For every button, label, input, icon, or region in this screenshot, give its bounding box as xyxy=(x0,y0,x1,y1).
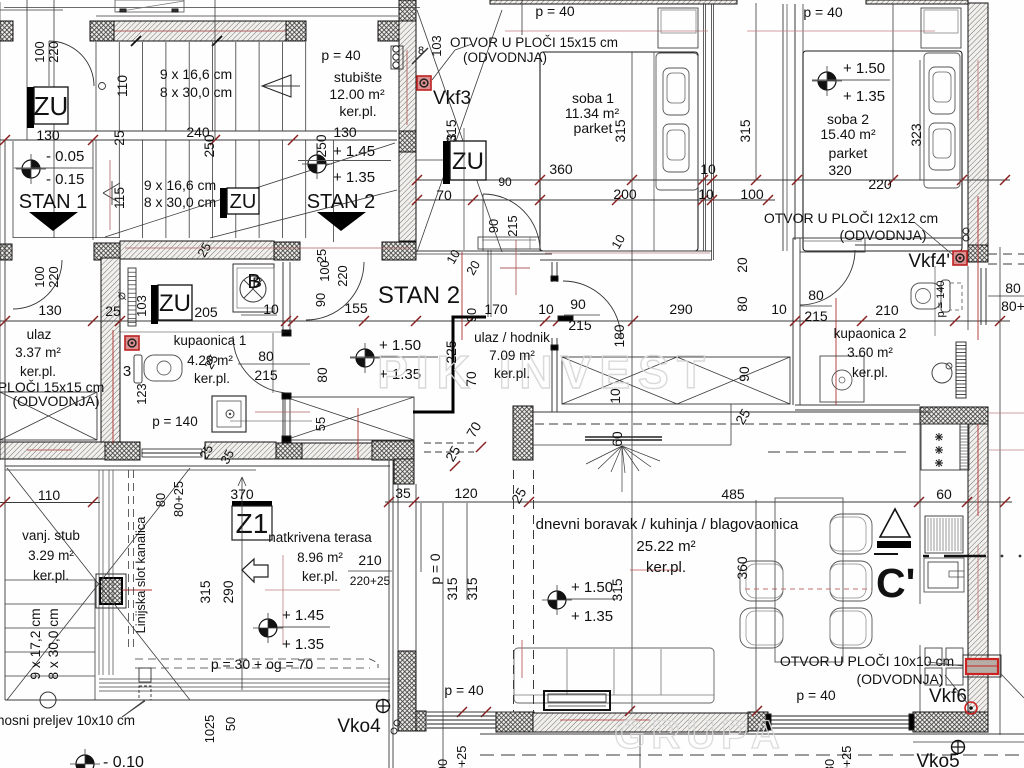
svg-text:25.22 m²: 25.22 m² xyxy=(636,538,695,555)
svg-text:80: 80 xyxy=(153,493,168,507)
svg-text:Vko5: Vko5 xyxy=(916,751,959,768)
ZU marker kupaonica1 xyxy=(134,285,218,324)
svg-text:90: 90 xyxy=(570,296,586,312)
window bottom (balcony) xyxy=(766,714,914,730)
right exterior wall upper xyxy=(968,3,988,245)
kupaonica1 door arc xyxy=(233,336,290,393)
terrace right boundary xyxy=(389,460,393,768)
right wall block above window xyxy=(968,245,988,262)
svg-text:100: 100 xyxy=(740,186,764,202)
svg-text:STAN 1: STAN 1 xyxy=(19,191,88,213)
kitchen dashed center line xyxy=(768,451,908,453)
door frame lines soba1 xyxy=(488,250,491,317)
svg-text:OTVOR U PLOČI 10x10 cm: OTVOR U PLOČI 10x10 cm xyxy=(780,653,954,669)
hodnik stud wall lower xyxy=(551,338,558,412)
lower-left wall band xyxy=(0,442,105,459)
svg-text:70: 70 xyxy=(436,187,452,203)
svg-text:0+25: 0+25 xyxy=(839,746,854,768)
stan1 arrow xyxy=(29,212,78,231)
overflow box xyxy=(122,668,151,717)
svg-text:stubište: stubište xyxy=(334,69,382,85)
svg-text:80+: 80+ xyxy=(1001,298,1024,314)
svg-text:p = 0: p = 0 xyxy=(428,553,443,584)
svg-text:p = 40: p = 40 xyxy=(796,687,836,703)
terrace diagonal b xyxy=(7,468,190,700)
svg-text:215: 215 xyxy=(254,367,278,383)
watermark xyxy=(377,346,786,757)
terrace wall column xyxy=(394,459,414,484)
svg-text:+ 1.35: + 1.35 xyxy=(571,608,613,625)
dim line 80 right xyxy=(988,295,1024,297)
stan2 entry door arc xyxy=(306,262,364,320)
toilet kupaonica1 xyxy=(134,355,182,383)
dining table xyxy=(775,498,843,662)
stairwell right wall foot block xyxy=(400,241,416,260)
svg-text:ker.pl.: ker.pl. xyxy=(494,366,530,381)
svg-text:115: 115 xyxy=(112,187,127,209)
elevation marker stubiste xyxy=(298,143,391,186)
small circles balcony column xyxy=(391,720,400,734)
elevation marker bottom-left xyxy=(70,749,144,768)
svg-text:220+25: 220+25 xyxy=(350,574,391,588)
terrace diagonal a xyxy=(7,468,190,700)
stair column circle xyxy=(99,83,106,90)
svg-text:70: 70 xyxy=(464,371,479,387)
svg-text:OTVOR U PLOČI 12x12 cm: OTVOR U PLOČI 12x12 cm xyxy=(764,210,938,226)
svg-text:25: 25 xyxy=(112,130,127,146)
void X box above terrace wall xyxy=(285,397,414,440)
svg-text:103: 103 xyxy=(134,295,149,317)
shaft X cross xyxy=(417,10,502,252)
coffee table xyxy=(544,691,610,710)
hodnik wall corner xyxy=(520,251,552,254)
svg-text:210: 210 xyxy=(875,302,899,318)
svg-text:kupaonica 1: kupaonica 1 xyxy=(174,333,247,348)
tick marks top band xyxy=(131,36,222,46)
bottom wall hatched xyxy=(533,713,748,732)
drain symbol Vkf4 xyxy=(953,251,967,265)
mid wall block left of kupaonica1 xyxy=(94,243,120,260)
stan2 arrow xyxy=(317,212,366,231)
svg-text:250: 250 xyxy=(202,134,217,157)
svg-text:+ 1.50: + 1.50 xyxy=(571,579,613,596)
soba1 east wall xyxy=(704,4,714,260)
svg-text:soba 1: soba 1 xyxy=(572,90,614,106)
svg-text:+ 1.45: + 1.45 xyxy=(282,607,324,624)
ulaz door jamb lines xyxy=(13,141,120,240)
elevation marker hodnik xyxy=(350,337,438,383)
svg-text:Vkf3: Vkf3 xyxy=(433,88,471,109)
living room north dashed xyxy=(535,423,930,425)
svg-text:ker.pl.: ker.pl. xyxy=(339,103,376,119)
window right dashes xyxy=(988,254,1024,264)
svg-text:210: 210 xyxy=(358,552,382,568)
stair direction arrow xyxy=(262,75,300,97)
hob burners xyxy=(935,433,943,467)
leader preljev xyxy=(122,701,145,717)
shaft circles frame xyxy=(391,46,403,69)
svg-text:dnevni boravak / kuhinja / bla: dnevni boravak / kuhinja / blagovaonica xyxy=(536,516,799,533)
svg-text:STAN 2: STAN 2 xyxy=(378,282,460,309)
window right (kupaonica2) xyxy=(935,266,986,336)
wall block stair top right xyxy=(378,21,416,41)
svg-text:p = 40: p = 40 xyxy=(803,4,843,20)
svg-text:80: 80 xyxy=(808,287,824,303)
kupaonica2 south wall block xyxy=(920,407,988,424)
svg-text:soba 2: soba 2 xyxy=(827,111,869,127)
kitchen sink xyxy=(923,555,1021,592)
svg-text:60: 60 xyxy=(936,486,952,502)
soba2 room outline xyxy=(803,51,962,251)
stair lower flight treads xyxy=(96,140,397,238)
svg-text:7.09 m²: 7.09 m² xyxy=(489,348,535,363)
svg-text:ZU: ZU xyxy=(452,148,484,175)
kupaonica2 north wall xyxy=(793,238,962,245)
svg-text:290: 290 xyxy=(221,580,236,603)
dim line y140 xyxy=(0,135,300,145)
svg-text:- 0.15: - 0.15 xyxy=(46,171,84,188)
svg-text:10: 10 xyxy=(700,161,716,177)
dim line y502 left (110) xyxy=(0,497,100,507)
right exterior wall lower xyxy=(968,424,988,712)
svg-text:p = 30 + og = 70: p = 30 + og = 70 xyxy=(211,656,314,672)
kupaonica1 east wall xyxy=(282,262,291,442)
balcony column borders xyxy=(398,484,416,651)
svg-text:B: B xyxy=(252,274,261,290)
svg-text:130: 130 xyxy=(333,124,357,140)
svg-text:8 x 30,0 cm: 8 x 30,0 cm xyxy=(144,194,216,210)
stair arrow left flight xyxy=(103,160,120,230)
shower kupaonica1 xyxy=(212,396,246,432)
svg-text:35: 35 xyxy=(395,485,411,501)
svg-text:ker.pl.: ker.pl. xyxy=(302,569,338,584)
svg-text:155: 155 xyxy=(344,300,368,316)
symbol B xyxy=(233,264,277,315)
svg-text:ZU: ZU xyxy=(159,290,191,317)
svg-text:10: 10 xyxy=(771,301,787,317)
svg-text:170: 170 xyxy=(484,301,508,317)
svg-text:225: 225 xyxy=(444,340,459,363)
svg-text:360: 360 xyxy=(549,161,573,177)
red line stair wall xyxy=(406,50,408,125)
svg-text:220: 220 xyxy=(335,265,350,286)
soffit line dnevni xyxy=(533,404,731,445)
shaft strip lines xyxy=(783,4,787,251)
svg-text:200: 200 xyxy=(613,186,637,202)
svg-text:100: 100 xyxy=(32,41,47,62)
terrace channel lines xyxy=(99,470,390,691)
svg-text:320: 320 xyxy=(828,162,852,178)
svg-text:+ 1.35: + 1.35 xyxy=(333,169,375,186)
svg-text:- 0.05: - 0.05 xyxy=(46,148,84,165)
svg-text:1025: 1025 xyxy=(202,715,217,743)
red plumbing line hodnik xyxy=(461,252,463,340)
red level line top xyxy=(505,30,935,32)
svg-text:90: 90 xyxy=(313,293,328,307)
leader Vkf6 xyxy=(928,662,968,704)
washbasin kupaonica1 xyxy=(0,0,1,1)
exterior wall hatched band top-left xyxy=(114,21,286,41)
bottom wall block right xyxy=(913,712,988,732)
svg-text:Vkf6: Vkf6 xyxy=(929,686,967,707)
svg-text:220: 220 xyxy=(868,176,892,192)
red line pillar xyxy=(122,555,340,645)
svg-text:80: 80 xyxy=(1005,280,1021,296)
svg-text:55: 55 xyxy=(313,417,328,431)
svg-text:+ 1.35: + 1.35 xyxy=(282,636,324,653)
wardrobe soba2 xyxy=(921,8,961,48)
svg-text:+ 1.45: + 1.45 xyxy=(333,143,375,160)
stair upper flight treads xyxy=(45,42,397,242)
section marker C xyxy=(874,509,915,606)
dim line y200 xyxy=(412,195,775,205)
svg-text:315: 315 xyxy=(444,119,459,142)
svg-text:ker.pl.: ker.pl. xyxy=(852,365,888,380)
svg-text:80+25: 80+25 xyxy=(171,481,186,517)
terrace left boundary xyxy=(4,140,6,700)
svg-text:110: 110 xyxy=(115,75,130,97)
svg-text:natkrivena terasa: natkrivena terasa xyxy=(268,530,372,545)
svg-text:80: 80 xyxy=(735,296,750,312)
svg-text:(ODVODNJA): (ODVODNJA) xyxy=(12,393,99,409)
kitchen cabinet squares xyxy=(925,648,963,685)
svg-text:12.00 m²: 12.00 m² xyxy=(329,86,385,102)
terrace arrow xyxy=(242,559,268,582)
svg-text:PIK INVEST: PIK INVEST xyxy=(377,346,713,398)
svg-text:3.60 m²: 3.60 m² xyxy=(847,345,893,360)
svg-text:+ 1.50: + 1.50 xyxy=(843,60,885,77)
svg-text:9 x 16,6 cm: 9 x 16,6 cm xyxy=(144,177,216,193)
svg-text:215: 215 xyxy=(804,308,828,324)
vertical dim lines left xyxy=(27,0,215,238)
window left (kupaonica1) xyxy=(142,449,202,457)
dim line y712 xyxy=(426,706,762,717)
svg-text:OTVOR U PLOČI 15x15 cm: OTVOR U PLOČI 15x15 cm xyxy=(450,35,618,50)
svg-text:290: 290 xyxy=(669,301,693,317)
top edge wall sliver soba2 xyxy=(866,0,968,4)
svg-text:ker.pl.: ker.pl. xyxy=(33,568,69,583)
svg-text:ZU: ZU xyxy=(230,191,257,213)
svg-text:11.34 m²: 11.34 m² xyxy=(565,105,620,121)
svg-text:25: 25 xyxy=(314,249,329,263)
balcony wall column xyxy=(398,651,416,731)
elevation marker dnevni xyxy=(542,579,618,625)
svg-text:ker.pl.: ker.pl. xyxy=(646,559,686,576)
svg-text:3.37 m²: 3.37 m² xyxy=(15,345,61,360)
svg-text:110: 110 xyxy=(38,487,61,503)
terrace wall crosshatch block a xyxy=(276,443,302,459)
svg-text:3.29 m²: 3.29 m² xyxy=(28,548,74,563)
svg-text:315: 315 xyxy=(613,119,628,142)
terrace top boundary xyxy=(5,466,390,470)
soba1 bottom wall line xyxy=(416,251,712,260)
svg-text:ZU: ZU xyxy=(34,91,69,121)
dim line y180 xyxy=(412,175,1010,185)
vanity kupaonica2 xyxy=(820,356,864,402)
svg-text:10: 10 xyxy=(698,186,714,202)
stairwell right wall crosshatch block xyxy=(399,131,416,152)
svg-text:315: 315 xyxy=(445,577,460,600)
svg-text:9 x 17,2 cm: 9 x 17,2 cm xyxy=(28,608,43,679)
toilet kupaonica2 xyxy=(911,280,962,312)
svg-text:p = 140: p = 140 xyxy=(935,280,947,317)
svg-text:ulaz: ulaz xyxy=(27,327,52,342)
mid wall band hatched xyxy=(120,241,274,259)
ZU marker shaft xyxy=(416,128,486,250)
shaft circles xyxy=(393,46,399,68)
upper floor line xyxy=(96,15,398,17)
svg-text:205: 205 xyxy=(194,304,218,320)
soba1 room outline xyxy=(540,52,698,251)
dining chairs xyxy=(740,514,872,648)
red dashed line table xyxy=(745,588,872,590)
left apartment boundary lines xyxy=(0,2,63,460)
stairwell wall top corner block xyxy=(399,0,416,21)
svg-text:123: 123 xyxy=(134,383,149,404)
svg-text:315: 315 xyxy=(738,119,753,142)
boiler kupaonica2 xyxy=(932,363,952,383)
svg-text:485: 485 xyxy=(721,486,745,502)
svg-text:323: 323 xyxy=(909,123,924,146)
svg-text:- 0.10: - 0.10 xyxy=(103,754,144,768)
svg-text:Linijska slot kanalica: Linijska slot kanalica xyxy=(133,516,148,634)
red cross hodnik xyxy=(500,240,530,295)
leader Vkf4 xyxy=(914,222,953,255)
dresser soba2 xyxy=(800,238,865,252)
svg-text:p = 40: p = 40 xyxy=(321,47,361,63)
svg-text:Vko4: Vko4 xyxy=(337,716,381,737)
terrace steps xyxy=(5,580,95,708)
svg-text:C': C' xyxy=(876,560,915,606)
svg-text:103: 103 xyxy=(429,35,444,56)
red line wall left xyxy=(112,330,114,443)
svg-text:90: 90 xyxy=(737,366,752,382)
red plumbing line kupaonica2 xyxy=(835,298,837,405)
svg-text:p = 40: p = 40 xyxy=(535,3,575,19)
hodnik stud wall upper xyxy=(551,262,558,282)
vertical dim lines lower xyxy=(421,404,756,768)
red line right wall xyxy=(978,60,1024,620)
ZU marker stairs upper xyxy=(27,87,68,143)
svg-text:(ODVODNJA): (ODVODNJA) xyxy=(856,671,943,687)
svg-text:STAN 2: STAN 2 xyxy=(307,191,376,213)
mid wall band block far left xyxy=(0,244,12,260)
svg-text:370: 370 xyxy=(230,486,254,502)
svg-text:220: 220 xyxy=(46,41,61,62)
svg-text:8 x 30,0 cm: 8 x 30,0 cm xyxy=(160,84,232,100)
svg-text:90: 90 xyxy=(498,175,512,189)
kupaonica2 door arc xyxy=(800,250,855,305)
bottom line under wall xyxy=(480,734,1024,742)
dim line y321 full width xyxy=(0,316,1010,326)
wall stub black xyxy=(558,316,573,321)
red line sofa xyxy=(521,640,523,678)
terrace top wall hatched xyxy=(205,442,276,459)
leader Vkf3 xyxy=(412,44,472,80)
wall block right of stair door xyxy=(286,21,306,41)
kupaonica1 left wall vertical xyxy=(101,258,120,443)
kitchen counter front xyxy=(919,424,921,712)
svg-text:80: 80 xyxy=(315,367,330,383)
svg-text:130: 130 xyxy=(36,127,60,143)
svg-text:120: 120 xyxy=(454,485,478,501)
svg-text:360: 360 xyxy=(735,556,750,579)
svg-text:(ODVODNJA): (ODVODNJA) xyxy=(839,227,926,243)
svg-text:0+25: 0+25 xyxy=(454,746,469,768)
svg-text:Vkf4': Vkf4' xyxy=(908,251,950,272)
soba1 door arc xyxy=(483,194,540,251)
soba2 west wall xyxy=(795,4,803,245)
svg-text:p = 40: p = 40 xyxy=(444,682,484,698)
svg-text:80: 80 xyxy=(822,759,837,768)
svg-text:urnosni preljev 10x10 cm: urnosni preljev 10x10 cm xyxy=(0,713,135,728)
living room door arc xyxy=(563,281,621,339)
svg-text:(ODVODNJA): (ODVODNJA) xyxy=(463,50,547,65)
dim line y502 xyxy=(384,497,1012,507)
elevation marker soba2 xyxy=(812,60,890,105)
svg-text:GRUPA: GRUPA xyxy=(614,713,785,757)
svg-text:25: 25 xyxy=(105,303,121,319)
balcony sill right of terrace xyxy=(427,716,496,728)
svg-text:130: 130 xyxy=(38,302,62,318)
dishwasher xyxy=(925,516,963,553)
terrace bottom edge xyxy=(5,699,390,701)
radiator kupaonica1 xyxy=(118,268,136,326)
svg-text:8.96 m²: 8.96 m² xyxy=(297,550,343,565)
svg-text:10: 10 xyxy=(608,388,623,404)
svg-text:vanj. stub: vanj. stub xyxy=(22,528,80,543)
svg-text:p = 140: p = 140 xyxy=(152,414,197,429)
oplus red Vkf6 xyxy=(965,702,977,714)
towel radiator xyxy=(956,342,966,398)
svg-text:9 x 16,6 cm: 9 x 16,6 cm xyxy=(160,66,232,82)
wall heater dnevni xyxy=(585,437,662,492)
terrace pillar crosshatch xyxy=(96,574,126,608)
kupaonica1 aux lines xyxy=(120,332,312,421)
svg-text:kupaonica 2: kupaonica 2 xyxy=(834,326,907,341)
kitchen hob xyxy=(921,424,960,470)
kupaonica2 south wall xyxy=(795,405,920,410)
kupaonica2 west wall xyxy=(793,238,800,405)
svg-text:315: 315 xyxy=(198,580,213,603)
kitchen strip xyxy=(960,424,969,470)
red line terrace wall xyxy=(357,408,359,460)
vent duct Vkf6 xyxy=(963,655,1024,698)
terrace wall crosshatch block b xyxy=(372,441,414,460)
svg-text:315: 315 xyxy=(610,578,625,601)
Z1 marker terasa xyxy=(232,477,272,690)
svg-text:parket: parket xyxy=(829,145,868,161)
svg-text:Z1: Z1 xyxy=(236,508,269,539)
elevation marker terasa xyxy=(253,607,330,653)
svg-text:60: 60 xyxy=(610,431,625,447)
wall block left of stair door xyxy=(90,21,114,41)
entry door arc ulaz xyxy=(13,260,62,309)
bed soba1 xyxy=(654,52,698,251)
vertical dim lines rooms xyxy=(632,3,920,404)
terrace channel dashed xyxy=(129,470,379,668)
svg-text:90: 90 xyxy=(486,219,501,233)
beam over hodnik (X band) xyxy=(562,357,790,404)
red marks in walls xyxy=(27,248,680,720)
svg-text:8 x 30,0 cm: 8 x 30,0 cm xyxy=(46,608,61,679)
sofa xyxy=(514,648,714,703)
dashed doors to terrace xyxy=(514,470,534,712)
svg-text:215: 215 xyxy=(505,215,520,236)
wall corner block top-left xyxy=(0,21,13,41)
vertical dim line right xyxy=(999,247,1001,735)
stairwell right wall vertical xyxy=(399,0,416,241)
